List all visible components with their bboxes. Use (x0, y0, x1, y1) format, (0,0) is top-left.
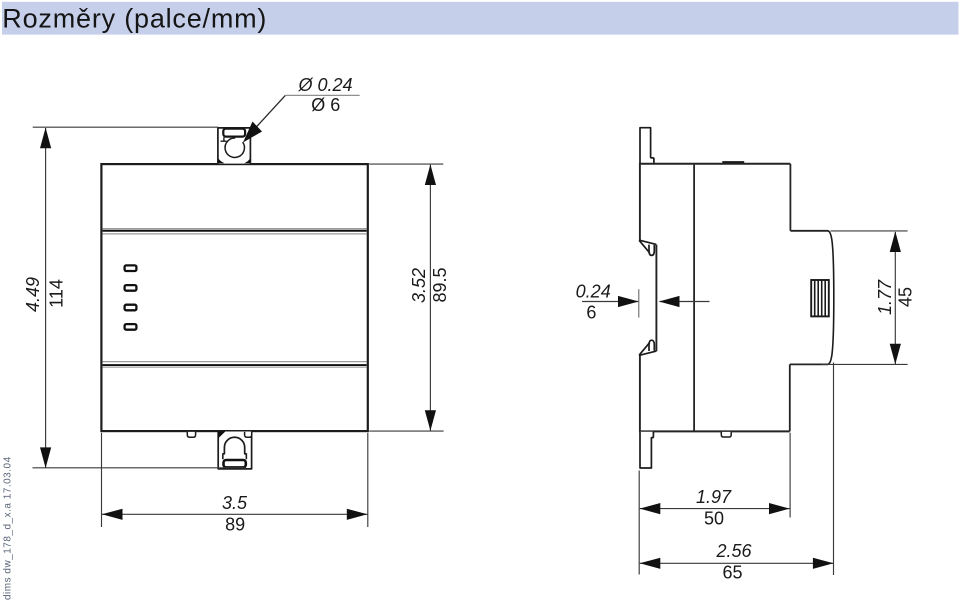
svg-text:1.97: 1.97 (696, 487, 732, 507)
connector rib 2 (817, 281, 819, 316)
extension line bottom 45 (822, 363, 908, 365)
front view body outline (101, 164, 367, 431)
leader line for hole diameter (247, 95, 286, 137)
extension line top 114 (33, 126, 218, 128)
connector rib 4 (824, 281, 826, 316)
top tab notch step (221, 137, 227, 141)
LED indicator 2 (125, 285, 137, 291)
side bottom step (790, 363, 828, 365)
upper hook top edge (639, 240, 656, 244)
front upper divider lower gray line (103, 233, 367, 235)
svg-text:3.52: 3.52 (409, 268, 429, 303)
rail recess floor (655, 245, 657, 352)
arrow up 114 (40, 128, 51, 149)
extension line right 89 (367, 433, 369, 527)
extension line rail face (638, 289, 640, 317)
extension line bottom 89.5 (369, 430, 443, 432)
side inner vertical line (693, 165, 695, 431)
arrow up 45 (890, 231, 901, 252)
arrow down 45 (890, 344, 901, 365)
side bottom bump (721, 432, 731, 437)
svg-text:4.49: 4.49 (23, 277, 43, 312)
svg-text:3.5: 3.5 (222, 493, 248, 513)
front upper divider gray line (103, 228, 367, 230)
LED indicator 1 (125, 265, 137, 271)
side lower clip tab (640, 432, 653, 468)
top tab screw hole arc (225, 138, 244, 157)
top tab slot (223, 129, 245, 137)
bottom tab corner wedge (218, 432, 225, 439)
svg-text:50: 50 (704, 509, 724, 529)
side left edge lower (639, 355, 641, 431)
svg-text:Rozměry (palce/mm): Rozměry (palce/mm) (2, 4, 267, 34)
svg-text:114: 114 (47, 279, 67, 308)
arrow left 89 (102, 509, 123, 520)
connector rib 1 (814, 281, 816, 316)
connector rib 3 (821, 281, 823, 316)
side view top edge (639, 163, 790, 165)
svg-text:89: 89 (225, 515, 245, 535)
lower hook bottom edge (639, 351, 656, 355)
latch left shoulder (223, 453, 225, 459)
arrow up 89.5 (425, 164, 436, 185)
side right rear edge upper (789, 164, 791, 231)
front lower divider gray line (103, 361, 367, 363)
side left edge upper (639, 163, 641, 240)
dimension line 50 (640, 508, 790, 510)
front upper divider black line (103, 230, 367, 232)
arrow left for 6 (659, 296, 680, 307)
extension line left 89 (101, 433, 103, 527)
side front face curve (828, 231, 834, 364)
arrow right 50 (769, 503, 790, 514)
dimension line 6 right part (660, 301, 710, 303)
arrow left 65 (640, 558, 661, 569)
lower hook diagonal (639, 343, 649, 355)
latch right shoulder (245, 453, 247, 459)
lower hook finger (649, 340, 654, 351)
arrow right for 6 (618, 296, 639, 307)
svg-text:6: 6 (586, 302, 596, 322)
svg-text:1.77: 1.77 (875, 279, 895, 315)
front lower divider lower gray line (103, 366, 367, 368)
latch dome (224, 437, 244, 453)
dimension line 45 (894, 232, 896, 364)
svg-text:2.56: 2.56 (715, 541, 752, 561)
dimension line 114 (45, 128, 47, 468)
dimension line 6 left part (582, 301, 638, 303)
leader arrowhead (243, 122, 262, 143)
dimension line 89 (102, 513, 367, 515)
side top lip (722, 161, 744, 163)
extension line right 65 (833, 363, 835, 576)
dimension line 89.5 (429, 165, 431, 431)
top tab right fillet (244, 157, 250, 163)
svg-text:0.24: 0.24 (576, 281, 611, 301)
arrow left 50 (640, 503, 661, 514)
front left bump (187, 432, 195, 437)
bottom latch tab outline (218, 432, 251, 469)
front right bump (245, 432, 252, 437)
arrow right 89 (347, 509, 368, 520)
LED indicator 4 (125, 324, 137, 330)
arrow right 65 (813, 558, 834, 569)
extension line top 45 (831, 230, 908, 232)
extension line top 89.5 (369, 163, 443, 165)
svg-text:65: 65 (722, 563, 742, 583)
svg-text:45: 45 (896, 287, 916, 307)
leader underline (285, 94, 359, 96)
extension line bottom 114 (33, 467, 247, 469)
side bottom edge (639, 430, 790, 432)
top mounting tab outline (218, 128, 251, 164)
extension line right 50 (789, 433, 791, 518)
extension line left 50-65 (638, 471, 640, 575)
side view top clip tab (640, 128, 654, 163)
top tab left fillet (218, 157, 225, 163)
ribbed connector block (811, 280, 829, 316)
side right rear edge lower (789, 364, 791, 431)
svg-text:89.5: 89.5 (430, 267, 450, 302)
svg-text:Ø 6: Ø 6 (311, 95, 340, 115)
front lower divider black line (103, 364, 367, 366)
dimension line 65 (640, 562, 833, 564)
header bar (2, 2, 959, 35)
LED indicator 3 (125, 305, 137, 311)
svg-text:dims dw_178_d_x.a 17.03.04: dims dw_178_d_x.a 17.03.04 (3, 456, 14, 600)
upper hook diagonal (639, 241, 649, 253)
svg-text:Ø 0.24: Ø 0.24 (297, 75, 352, 95)
side top step (790, 230, 828, 232)
latch foot (224, 460, 246, 467)
upper hook finger (649, 245, 654, 256)
arrow down 114 (40, 447, 51, 468)
arrow down 89.5 (425, 410, 436, 431)
